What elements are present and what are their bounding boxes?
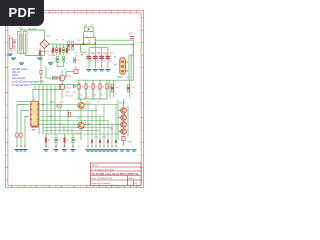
wire xyxy=(128,55,130,80)
ground earth xyxy=(8,54,13,55)
svg-text:R23: R23 xyxy=(110,129,113,131)
wire xyxy=(59,45,61,48)
capacitor C16 xyxy=(45,138,47,143)
wire xyxy=(65,72,67,79)
component mark xyxy=(99,140,101,143)
junction xyxy=(67,110,68,111)
capacitor C14 xyxy=(111,85,113,93)
junction xyxy=(59,124,60,125)
wire xyxy=(45,134,47,138)
wire xyxy=(64,143,66,148)
ground xyxy=(86,149,91,150)
ground xyxy=(87,69,92,70)
wire xyxy=(123,99,125,108)
wire vertical xyxy=(54,85,56,134)
wire xyxy=(72,134,74,138)
wire vertical xyxy=(40,55,42,85)
wire xyxy=(115,105,117,148)
capacitor C9 xyxy=(84,27,93,32)
svg-text:R2: R2 xyxy=(75,52,77,54)
pin marks IC3 xyxy=(125,61,128,63)
svg-text:ADJ: ADJ xyxy=(114,63,118,66)
ground xyxy=(44,149,49,150)
wire xyxy=(106,89,108,99)
junction xyxy=(95,110,96,111)
ground xyxy=(114,149,119,150)
wire IC2 pin1 to R17 xyxy=(17,105,29,147)
svg-text:1k: 1k xyxy=(73,92,75,94)
wire xyxy=(123,141,125,146)
junction xyxy=(64,145,66,147)
wire xyxy=(52,45,54,48)
wire xyxy=(92,80,94,84)
svg-text:Q5-Q8: Q5-Q8 xyxy=(119,103,126,105)
wire xyxy=(55,143,57,148)
wire V+ to right xyxy=(95,44,133,46)
svg-text:10k: 10k xyxy=(101,87,104,89)
diode D1 xyxy=(73,85,76,88)
svg-text:AC 240V: AC 240V xyxy=(29,28,37,31)
svg-text:C1 2200u: C1 2200u xyxy=(48,55,56,57)
wire xyxy=(78,89,80,99)
pin IC1 in xyxy=(83,43,85,45)
wire xyxy=(107,121,109,148)
capacitor C10 electrolytic xyxy=(87,56,92,57)
frame column ticks xyxy=(11,10,13,13)
svg-text:VR1 for: VR1 for xyxy=(12,71,20,74)
junction xyxy=(99,124,100,125)
connector SV1 xyxy=(130,36,135,38)
wire Q2 emitter xyxy=(61,90,63,99)
connector X1 mains input xyxy=(10,38,13,49)
transformer TR1 secondary xyxy=(23,32,27,54)
svg-text:11: 11 xyxy=(130,186,132,188)
PDF badge xyxy=(0,0,44,26)
wire vertical xyxy=(46,85,48,134)
ground xyxy=(15,149,20,150)
wire xyxy=(99,117,101,148)
transistor Q7 xyxy=(121,122,127,128)
wire xyxy=(63,53,65,56)
wire to bridge AC2 xyxy=(26,55,45,57)
ground xyxy=(54,149,59,150)
ground xyxy=(11,58,16,59)
bridge rectifier B1 xyxy=(40,40,49,49)
svg-text:C1: C1 xyxy=(92,54,94,56)
resistor R17 xyxy=(16,133,18,137)
transformer core xyxy=(21,34,23,50)
wire AC bottom xyxy=(20,53,26,55)
ground xyxy=(99,69,104,70)
svg-text:C5: C5 xyxy=(66,58,68,60)
junction xyxy=(50,116,51,117)
svg-text:3: 3 xyxy=(30,186,31,188)
svg-text:GND: GND xyxy=(117,77,122,79)
capacitor C18 xyxy=(63,138,65,143)
svg-text:C15: C15 xyxy=(131,87,134,89)
svg-text:TITLE:: TITLE: xyxy=(92,165,98,167)
wire xyxy=(80,99,82,102)
svg-text:Date: 12/02/2016 11:30: Date: 12/02/2016 11:30 xyxy=(92,177,114,180)
svg-text:TIP3055: TIP3055 xyxy=(74,133,81,135)
ground xyxy=(23,149,28,150)
svg-text:7: 7 xyxy=(80,186,81,188)
ground xyxy=(126,149,131,150)
wire stub xyxy=(118,110,121,112)
junction xyxy=(24,146,25,147)
transistor Q8 xyxy=(121,129,127,135)
wire mesh horizontal runs xyxy=(40,104,118,106)
junction xyxy=(72,145,74,147)
svg-text:9: 9 xyxy=(105,186,106,188)
wire cap bank rail xyxy=(89,47,108,49)
wire rail A xyxy=(30,84,80,86)
wire xyxy=(87,105,89,148)
wire vertical xyxy=(42,85,44,134)
wire vertical xyxy=(32,90,34,102)
wire xyxy=(63,45,65,48)
svg-text:4: 4 xyxy=(43,186,44,188)
wire xyxy=(78,89,80,99)
junction xyxy=(55,145,57,147)
capacitor C19 xyxy=(72,138,74,143)
junction xyxy=(107,146,108,147)
svg-text:B40C800: B40C800 xyxy=(40,51,49,53)
wire mesh vertical runs xyxy=(59,105,61,135)
junction xyxy=(45,145,47,147)
svg-text:R10: R10 xyxy=(66,92,69,94)
svg-text:7: 7 xyxy=(80,11,81,13)
wire IC2 pin3 down xyxy=(25,117,29,147)
junction xyxy=(40,77,41,78)
ground xyxy=(71,149,76,150)
wire xyxy=(83,32,85,38)
svg-text:0-30V.: 0-30V. xyxy=(12,75,19,77)
wire bridge bottom xyxy=(44,49,46,56)
svg-text:Drawn by: H. Holden: Drawn by: H. Holden xyxy=(92,183,110,185)
wire riser xyxy=(94,45,96,48)
junction xyxy=(20,146,21,147)
wire xyxy=(99,80,101,84)
junction xyxy=(111,146,112,147)
junction xyxy=(99,146,100,147)
ground xyxy=(19,149,24,150)
wire xyxy=(101,48,103,68)
svg-text:R3: R3 xyxy=(59,54,61,56)
ground xyxy=(48,62,53,63)
frame inner border xyxy=(8,13,141,185)
svg-text:10: 10 xyxy=(117,186,119,188)
wire vertical xyxy=(50,85,52,134)
wire xyxy=(78,80,80,84)
svg-text:R5: R5 xyxy=(101,94,103,96)
ground xyxy=(120,149,125,150)
wire xyxy=(56,45,58,48)
svg-text:Use heatsink: Use heatsink xyxy=(12,77,26,80)
resistor R4 xyxy=(92,84,94,89)
capacitor C1 xyxy=(52,48,54,53)
component mark xyxy=(91,140,93,143)
wire Q1 emitter xyxy=(61,81,63,84)
svg-text:2: 2 xyxy=(18,186,19,188)
svg-text:on Q3-Q6 pass transistors TO3: on Q3-Q6 pass transistors TO3 xyxy=(12,81,45,84)
svg-text:NOTES: Adjust: NOTES: Adjust xyxy=(12,68,28,71)
resistor R2 xyxy=(78,84,80,89)
wire rail xyxy=(79,98,107,100)
transistor Q6 xyxy=(121,115,127,121)
wire vertical xyxy=(34,85,36,90)
svg-text:0R1: 0R1 xyxy=(129,142,132,144)
wire xyxy=(95,105,97,148)
svg-text:10u: 10u xyxy=(75,139,78,141)
wire xyxy=(88,48,90,68)
svg-text:1: 1 xyxy=(5,186,6,188)
wire vertical xyxy=(45,66,47,78)
wire right drop xyxy=(132,40,134,57)
component mark xyxy=(107,140,109,143)
transistor Q2 xyxy=(59,84,65,90)
zener diode D3 xyxy=(74,58,76,64)
junction xyxy=(103,146,104,147)
junction xyxy=(87,146,88,147)
wire rectified V+ rail xyxy=(49,43,91,46)
resistor R7 xyxy=(53,77,58,79)
junction xyxy=(81,54,82,55)
resistor R18 xyxy=(20,133,22,137)
junction xyxy=(88,28,90,30)
svg-text:C20: C20 xyxy=(95,137,98,139)
svg-text:C3 47u 63V: C3 47u 63V xyxy=(50,62,60,64)
ground xyxy=(132,149,137,150)
wire rail xyxy=(76,79,110,81)
svg-text:BC557: BC557 xyxy=(66,87,72,89)
wire xyxy=(56,62,58,67)
svg-text:8: 8 xyxy=(93,186,94,188)
wire IC2 pin2 to R18 xyxy=(21,111,29,147)
junction xyxy=(95,146,96,147)
svg-text:C1: C1 xyxy=(98,54,100,56)
ground xyxy=(38,58,43,59)
wire xyxy=(63,62,65,67)
wire xyxy=(107,48,109,68)
capacitor C17 xyxy=(55,138,57,143)
resistor R13 xyxy=(57,105,61,107)
resistor R5 xyxy=(99,84,101,89)
wire stub xyxy=(118,117,121,119)
wire xyxy=(85,89,87,99)
wire xyxy=(132,45,134,80)
ground xyxy=(62,149,67,150)
wire xyxy=(56,53,58,56)
svg-text:11: 11 xyxy=(130,11,132,13)
fuse F1 xyxy=(75,43,90,45)
wire xyxy=(66,53,68,56)
svg-text:Dr. H. Holden. Feb 2016: Dr. H. Holden. Feb 2016 xyxy=(92,168,115,171)
voltage regulator IC1 xyxy=(84,37,96,44)
svg-text:BC547: BC547 xyxy=(65,76,71,78)
ground xyxy=(110,149,115,150)
wire xyxy=(85,80,87,84)
wire rail B xyxy=(32,89,62,91)
wire right rail xyxy=(127,106,129,136)
wire xyxy=(129,80,131,98)
wire xyxy=(93,32,95,38)
pin IC1 out xyxy=(94,43,96,45)
wire xyxy=(99,89,101,99)
wire xyxy=(109,80,111,98)
wire stub xyxy=(118,131,121,133)
svg-text:6: 6 xyxy=(68,11,69,13)
junction xyxy=(115,146,116,147)
ground xyxy=(19,63,24,64)
transistor Q4 xyxy=(78,122,84,128)
capacitor C5 xyxy=(63,57,65,63)
ground xyxy=(105,69,110,70)
wire xyxy=(94,48,96,68)
wire xyxy=(92,89,94,99)
svg-text:R15: R15 xyxy=(60,102,63,104)
svg-text:C14: C14 xyxy=(115,87,118,89)
wire xyxy=(80,129,82,140)
wire xyxy=(72,143,74,148)
capacitor C3 xyxy=(59,48,61,53)
title block xyxy=(91,163,142,185)
wire xyxy=(113,80,115,98)
transistor Q3 xyxy=(78,102,84,108)
wire xyxy=(52,53,54,56)
capacitor C11 electrolytic xyxy=(93,56,98,57)
wire xyxy=(103,105,105,148)
transistor Q1 xyxy=(59,75,65,81)
frame row ticks xyxy=(6,17,8,19)
wire AC top xyxy=(20,29,45,31)
wire drop xyxy=(81,44,87,52)
wire xyxy=(25,54,27,56)
svg-text:R12 4k7: R12 4k7 xyxy=(66,96,73,98)
wire xyxy=(92,89,94,99)
wire xyxy=(59,53,61,56)
svg-text:8: 8 xyxy=(93,11,94,13)
wire xyxy=(57,66,63,68)
wire xyxy=(130,55,132,80)
svg-text:10k: 10k xyxy=(80,87,83,89)
ground xyxy=(98,149,103,150)
wire xyxy=(64,134,66,138)
wire xyxy=(66,71,74,73)
wire xyxy=(39,49,41,51)
regulator IC3 xyxy=(120,58,126,74)
component mark xyxy=(115,140,117,143)
wire to bridge AC1 xyxy=(44,30,46,40)
svg-text:D2: D2 xyxy=(97,102,99,104)
svg-text:10k: 10k xyxy=(94,87,97,89)
svg-text:5: 5 xyxy=(55,11,56,13)
wire rail xyxy=(110,79,134,81)
svg-text:10u: 10u xyxy=(58,139,61,141)
capacitor C2 xyxy=(55,48,57,53)
frame outer border xyxy=(6,10,144,187)
capacitor C12 electrolytic xyxy=(99,56,104,57)
resistor R3 xyxy=(85,84,87,89)
svg-text:D3: D3 xyxy=(77,60,79,62)
wire xyxy=(66,45,68,48)
resistor R16 xyxy=(122,137,125,141)
svg-text:5: 5 xyxy=(55,186,56,188)
svg-text:Sheet:: Sheet: xyxy=(129,177,135,180)
ground xyxy=(90,149,95,150)
capacitor C7 xyxy=(68,42,70,51)
wire base row xyxy=(46,77,60,79)
wire xyxy=(80,109,82,123)
wire xyxy=(45,143,47,148)
svg-text:C1: C1 xyxy=(105,54,107,56)
wire output stack left rail xyxy=(117,100,119,140)
svg-text:C1: C1 xyxy=(86,54,88,56)
svg-text:for 3A load Q5-8: for 3A load Q5-8 xyxy=(12,84,29,87)
svg-text:10k: 10k xyxy=(87,87,90,89)
junction xyxy=(132,44,134,46)
svg-text:10: 10 xyxy=(117,11,119,13)
capacitor C5 xyxy=(66,48,68,53)
capacitor C4 xyxy=(62,48,64,53)
wire xyxy=(85,89,87,99)
junction xyxy=(91,146,92,147)
svg-text:9: 9 xyxy=(105,11,106,13)
wire xyxy=(106,80,108,84)
wire xyxy=(111,124,113,147)
svg-text:R4: R4 xyxy=(94,94,96,96)
wire stub xyxy=(118,124,121,126)
svg-text:1k: 1k xyxy=(87,97,89,99)
op-amp IC2 xyxy=(31,101,38,127)
svg-text:D1: D1 xyxy=(56,40,58,42)
junction xyxy=(16,146,17,147)
transformer TR1 primary xyxy=(17,32,21,54)
resistor R14 xyxy=(69,113,71,117)
resistor R6 xyxy=(106,84,108,89)
svg-text:6: 6 xyxy=(68,186,69,188)
svg-text:R4: R4 xyxy=(62,40,64,42)
svg-text:10u: 10u xyxy=(48,139,51,141)
wire xyxy=(91,111,93,148)
svg-text:The 30 Watt Linear Bench PSU 5: The 30 Watt Linear Bench PSU 5-30VDC 3A xyxy=(91,173,138,176)
wire xyxy=(129,54,133,56)
wire Q1 collector xyxy=(61,70,63,75)
trimmer R8 xyxy=(74,70,78,74)
capacitor C6 xyxy=(39,51,41,56)
ground xyxy=(94,149,99,150)
capacitor C8 xyxy=(72,42,74,51)
svg-text:R24: R24 xyxy=(86,102,89,104)
wire reg top to right xyxy=(95,39,133,41)
svg-text:R2: R2 xyxy=(80,94,82,96)
transistor Q5 xyxy=(121,108,127,114)
ground xyxy=(93,69,98,70)
ground xyxy=(106,149,111,150)
ground xyxy=(102,149,107,150)
svg-text:10u: 10u xyxy=(66,139,69,141)
svg-text:R22: R22 xyxy=(103,137,106,139)
capacitor C13 electrolytic xyxy=(106,56,111,57)
wire horizontal to IC2 xyxy=(17,101,33,103)
junction xyxy=(42,104,43,105)
wire xyxy=(55,134,57,138)
capacitor C4 xyxy=(56,57,58,63)
wire vertical xyxy=(38,85,40,134)
svg-text:2200u: 2200u xyxy=(109,52,114,54)
